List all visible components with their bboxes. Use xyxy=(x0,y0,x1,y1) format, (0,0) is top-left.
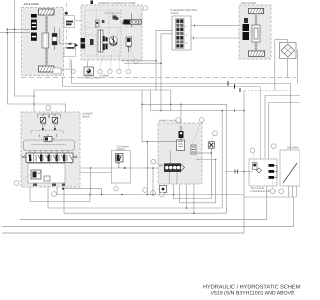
brake solenoid valve xyxy=(159,151,185,172)
long mid horizontal y194.5 xyxy=(60,194,244,196)
wire cushion drop left xyxy=(90,168,92,195)
balloon 5 left xyxy=(71,69,75,73)
oil filter return box xyxy=(249,159,277,193)
control link xyxy=(90,39,94,45)
title block text xyxy=(203,284,307,297)
balloon loader bottom xyxy=(52,192,57,197)
filter bars xyxy=(269,164,278,179)
tire tread top-left xyxy=(39,9,55,15)
brake accumulator xyxy=(177,140,185,151)
port tab box xyxy=(53,68,61,74)
port stub top xyxy=(91,1,94,5)
wire brake right port 2 xyxy=(196,159,216,161)
wire brake left port xyxy=(152,168,154,195)
relief valve loader R xyxy=(50,114,61,131)
filter orifice diamond xyxy=(257,168,262,173)
pilot dashed line loader xyxy=(31,130,63,132)
gearbox right xyxy=(252,25,260,42)
brake check valve xyxy=(179,126,184,140)
main spool loader xyxy=(22,150,78,164)
frame dashed bottom line xyxy=(21,77,296,79)
balloon 4 pump xyxy=(126,52,130,74)
filter check xyxy=(253,163,258,170)
cushion relief xyxy=(116,154,124,169)
wire pump to steering supply xyxy=(121,60,156,62)
pump drive shaft link xyxy=(60,28,78,47)
tire tread bottom-right xyxy=(249,51,265,56)
loader bottom drops xyxy=(30,187,64,213)
svg-text:VALVE: VALVE xyxy=(82,116,90,119)
svg-text:VALVE: VALVE xyxy=(117,148,125,151)
wire y110.5 right end dot xyxy=(243,110,245,112)
balloon brake 2 xyxy=(192,118,204,145)
wire brake feed risers xyxy=(142,90,227,213)
svg-text:CHARGE PUMP: CHARGE PUMP xyxy=(82,77,102,80)
bundle wire y213.2 xyxy=(64,212,227,214)
wire charge pump drain xyxy=(86,76,88,78)
balloon filter 3 xyxy=(270,179,275,194)
wire long bus y86.5 xyxy=(63,87,261,164)
wire steering to right axle B xyxy=(191,37,243,39)
wire filter right xyxy=(296,51,298,84)
balloon 2 pump xyxy=(108,52,112,74)
carryover passage xyxy=(24,134,75,151)
loader small comp xyxy=(44,176,50,181)
wire long bus y83.5 xyxy=(72,84,291,151)
axle shaft left (striped column) xyxy=(45,15,48,67)
wire long bus y90 xyxy=(34,89,171,91)
svg-text:AXLE DRIVE: AXLE DRIVE xyxy=(24,3,40,6)
svg-text:OIL TANK: OIL TANK xyxy=(287,147,299,150)
gear box coupler xyxy=(64,12,75,28)
wire steering left ports down xyxy=(156,30,172,90)
pump rotating group bars xyxy=(103,36,108,50)
pump inner dashed case xyxy=(85,10,121,56)
wire coupler links xyxy=(64,20,82,22)
pump cylinder xyxy=(98,30,103,52)
balloon loader top xyxy=(40,105,57,121)
bus A y226.5 xyxy=(2,197,294,227)
drive motor tank box xyxy=(280,147,300,187)
wire brake feed left xyxy=(142,104,176,141)
axle drive left box xyxy=(22,3,64,76)
brake pack left xyxy=(52,27,57,50)
bundle wire y202.8 xyxy=(180,160,216,203)
node junctions left xyxy=(7,29,9,31)
gearbox body xyxy=(64,47,75,57)
wire steering to right axle A xyxy=(191,25,243,27)
wire right nested corner 2 xyxy=(269,103,300,160)
wire right nested corner 1 xyxy=(265,96,300,159)
wire motor A line xyxy=(7,28,30,30)
balloon filter 1 xyxy=(250,148,255,162)
drive motor left (dark stack) xyxy=(31,14,37,41)
axle shaft right xyxy=(255,14,257,51)
wire loader to cushion lower xyxy=(80,172,111,174)
balloon 7 top right of pump xyxy=(138,6,148,21)
bundle wire y208 xyxy=(48,111,222,209)
brake comp right xyxy=(191,145,196,154)
pump small port marks xyxy=(102,20,105,23)
loader aux relief xyxy=(31,170,41,179)
svg-text:BRAKE VALVE: BRAKE VALVE xyxy=(159,120,177,123)
wire loader jog y201.5 xyxy=(30,195,90,202)
bus C y219.5 xyxy=(20,186,267,220)
axle drive right box xyxy=(239,2,271,59)
wire loader aux out y188.7 xyxy=(63,189,102,195)
balloon filter 2 xyxy=(271,144,276,149)
balloon 1 pump xyxy=(98,55,103,74)
wire left riser 2 xyxy=(7,29,65,112)
wire filter feed xyxy=(225,171,253,173)
charge pump box xyxy=(82,67,102,80)
svg-text:HYDRAULIC / HYDROSTATIC SCHEMA: HYDRAULIC / HYDROSTATIC SCHEMAT xyxy=(203,284,300,291)
balloon 3 pump xyxy=(117,50,121,74)
tire tread top-right xyxy=(249,8,264,13)
steering control valve box xyxy=(171,9,198,50)
loader inner sub box xyxy=(28,164,65,184)
balloon brake 5 xyxy=(151,188,160,195)
wire filter top xyxy=(275,40,288,91)
balloon brake 6 xyxy=(160,192,165,197)
relief valve right xyxy=(126,37,132,52)
svg-text:R: R xyxy=(186,42,188,45)
drive motor right xyxy=(243,18,250,40)
loader bottom port glyphs xyxy=(33,184,37,187)
bundle wire y198.5 xyxy=(174,184,212,199)
hydraulic oil filter (square with diamond) xyxy=(280,43,297,59)
svg-text:TANDEM HYDROSTATIC PUMP: TANDEM HYDROSTATIC PUMP xyxy=(98,2,136,5)
quick coupler box xyxy=(208,142,214,149)
balloon filter 4 xyxy=(279,189,284,194)
wire left riser from top edge xyxy=(14,0,34,96)
svg-text:FRAME: FRAME xyxy=(100,75,109,78)
cushion valve box xyxy=(111,146,130,183)
svg-text:VALVE: VALVE xyxy=(171,12,179,15)
pump circle 2 xyxy=(109,36,117,45)
balloon cushion xyxy=(114,183,118,191)
servo piston xyxy=(81,38,86,49)
brake orifice box xyxy=(160,186,167,193)
wire brake vertical x147 xyxy=(146,142,148,195)
loader control valve box xyxy=(21,112,93,187)
tire tread bottom-left xyxy=(39,66,55,72)
charge check xyxy=(96,20,100,27)
balloon brake 4 xyxy=(143,188,148,193)
wire filter bottom xyxy=(287,59,289,78)
shuttle valve small xyxy=(113,16,117,20)
wire gearbox drain xyxy=(61,58,70,69)
wire right vertical x244 xyxy=(243,91,245,234)
wire loader-cushion-brake y168 xyxy=(80,167,158,169)
brake box bottom drops xyxy=(186,184,188,208)
balloon brake 1 xyxy=(176,118,181,129)
port ticks on buses xyxy=(228,81,240,92)
balloon coupler xyxy=(212,131,218,141)
relief valve loader L xyxy=(38,114,49,131)
brake valve box xyxy=(158,120,202,185)
wire pump to charge pump xyxy=(87,60,89,67)
tank box drops xyxy=(289,186,297,197)
bus B y233 xyxy=(2,232,244,234)
gearbox housing left xyxy=(42,33,49,48)
brake solenoid drops xyxy=(169,171,177,184)
balloon loader left xyxy=(14,174,31,185)
balloon brake 3 xyxy=(151,159,163,165)
tandem hydrostatic pump box xyxy=(81,2,142,60)
frame dashed left edge xyxy=(66,3,68,46)
wire coupler down xyxy=(210,148,212,198)
wire motor B line xyxy=(0,32,30,34)
wire check valve feed xyxy=(180,104,182,130)
steering spool stack xyxy=(176,19,188,49)
svg-text:AXLE DRIVE: AXLE DRIVE xyxy=(241,2,257,5)
svg-text:V519 (S/N B3YH11001 AND ABOVE: V519 (S/N B3YH11001 AND ABOVE xyxy=(211,291,296,297)
balloon 6 right of pump xyxy=(130,48,138,64)
charge relief valve xyxy=(121,14,142,28)
